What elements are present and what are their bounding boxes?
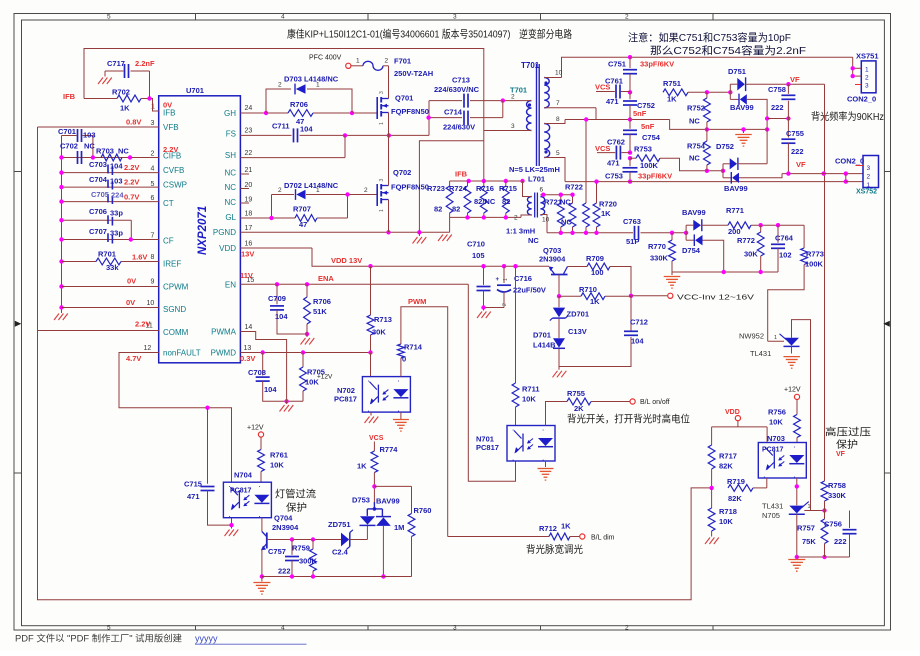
svg-text:300K: 300K bbox=[299, 557, 318, 566]
svg-text:330K: 330K bbox=[828, 491, 847, 500]
svg-text:C755: C755 bbox=[786, 129, 804, 138]
svg-text:D702 L4148/NC: D702 L4148/NC bbox=[284, 181, 339, 190]
svg-text:NC: NC bbox=[224, 183, 236, 192]
svg-text:NC: NC bbox=[689, 154, 700, 163]
svg-text:R718: R718 bbox=[719, 507, 737, 516]
svg-text:+12V: +12V bbox=[317, 374, 333, 381]
svg-text:C711: C711 bbox=[272, 122, 290, 131]
svg-text:VDD: VDD bbox=[219, 244, 236, 253]
svg-text:C707: C707 bbox=[89, 227, 107, 236]
svg-text:ENA: ENA bbox=[318, 274, 334, 283]
svg-text:C712: C712 bbox=[630, 318, 648, 327]
svg-text:NW952: NW952 bbox=[739, 332, 764, 341]
svg-text:23: 23 bbox=[245, 128, 253, 135]
svg-text:8: 8 bbox=[151, 254, 155, 261]
svg-text:30K: 30K bbox=[372, 328, 386, 337]
svg-text:R713: R713 bbox=[374, 315, 392, 324]
svg-text:2: 2 bbox=[502, 303, 508, 306]
svg-text:IFB: IFB bbox=[455, 170, 468, 179]
svg-text:D751: D751 bbox=[728, 67, 746, 76]
svg-text:224/630V/NC: 224/630V/NC bbox=[434, 85, 480, 94]
svg-text:471: 471 bbox=[187, 492, 200, 501]
svg-text:0.3V: 0.3V bbox=[240, 354, 255, 363]
svg-text:82: 82 bbox=[434, 205, 442, 214]
svg-text:R707: R707 bbox=[293, 205, 311, 214]
svg-text:10: 10 bbox=[555, 70, 563, 77]
svg-text:R770: R770 bbox=[648, 242, 666, 251]
svg-text:TL431: TL431 bbox=[750, 349, 771, 358]
svg-text:6: 6 bbox=[540, 187, 544, 194]
svg-text:103: 103 bbox=[110, 177, 123, 186]
svg-text:0.7V: 0.7V bbox=[124, 193, 139, 202]
svg-text:CON2_0: CON2_0 bbox=[835, 157, 864, 166]
svg-text:那么C752和C754容量为2.2nF: 那么C752和C754容量为2.2nF bbox=[650, 44, 806, 57]
svg-text:82/NC: 82/NC bbox=[474, 197, 496, 206]
svg-text:Q704: Q704 bbox=[274, 514, 293, 523]
svg-text:75K: 75K bbox=[802, 537, 816, 546]
svg-text:TL431: TL431 bbox=[762, 502, 783, 511]
svg-text:1: 1 bbox=[808, 504, 811, 510]
svg-text:2N3904: 2N3904 bbox=[272, 523, 299, 532]
svg-text:2: 2 bbox=[278, 187, 282, 194]
svg-text:2: 2 bbox=[364, 187, 368, 194]
svg-text:C717: C717 bbox=[107, 59, 125, 68]
svg-text:0V: 0V bbox=[126, 298, 135, 307]
svg-text:VDD: VDD bbox=[725, 409, 740, 416]
svg-text:3: 3 bbox=[151, 120, 155, 127]
svg-text:C704: C704 bbox=[89, 175, 108, 184]
svg-text:R760: R760 bbox=[414, 506, 432, 515]
svg-text:R773: R773 bbox=[806, 250, 824, 259]
svg-text:N705: N705 bbox=[762, 511, 780, 520]
svg-text:VF: VF bbox=[836, 451, 846, 458]
svg-text:2: 2 bbox=[625, 624, 629, 631]
svg-text:NC: NC bbox=[560, 198, 571, 207]
svg-text:注意：如果C751和C753容量为10pF: 注意：如果C751和C753容量为10pF bbox=[628, 31, 791, 44]
svg-text:471: 471 bbox=[607, 159, 620, 168]
svg-text:33pF/6KV: 33pF/6KV bbox=[638, 172, 672, 181]
svg-text:5: 5 bbox=[107, 14, 111, 21]
svg-text:1K: 1K bbox=[601, 209, 611, 218]
svg-text:R717: R717 bbox=[719, 452, 737, 461]
svg-text:4: 4 bbox=[281, 14, 285, 21]
svg-text:灯管过流: 灯管过流 bbox=[275, 488, 316, 501]
svg-text:10: 10 bbox=[147, 300, 155, 307]
svg-text:1: 1 bbox=[503, 278, 509, 281]
svg-text:C703: C703 bbox=[89, 160, 107, 169]
svg-text:R754: R754 bbox=[687, 142, 706, 151]
svg-text:10K: 10K bbox=[522, 395, 536, 404]
svg-text:Q701: Q701 bbox=[395, 94, 413, 103]
svg-text:CVFB: CVFB bbox=[163, 166, 184, 175]
svg-text:2.2V: 2.2V bbox=[124, 163, 139, 172]
svg-text:R752: R752 bbox=[687, 104, 705, 113]
svg-text:100: 100 bbox=[591, 268, 604, 277]
svg-text:8: 8 bbox=[556, 116, 560, 123]
svg-text:C709: C709 bbox=[268, 294, 286, 303]
svg-text:IREF: IREF bbox=[163, 260, 181, 269]
svg-text:C705: C705 bbox=[91, 190, 109, 199]
svg-text:104: 104 bbox=[264, 385, 277, 394]
svg-text:2N3904: 2N3904 bbox=[539, 255, 566, 264]
svg-text:R755: R755 bbox=[567, 389, 585, 398]
svg-text:C713: C713 bbox=[452, 76, 470, 85]
svg-text:1: 1 bbox=[865, 67, 869, 74]
svg-text:D701: D701 bbox=[533, 331, 551, 340]
svg-text:104: 104 bbox=[300, 125, 313, 134]
svg-text:C706: C706 bbox=[89, 207, 107, 216]
svg-text:R716: R716 bbox=[476, 184, 494, 193]
svg-text:4: 4 bbox=[281, 624, 285, 631]
svg-text:47: 47 bbox=[299, 220, 307, 229]
svg-text:2.2V: 2.2V bbox=[135, 320, 150, 329]
svg-text:C701: C701 bbox=[58, 127, 76, 136]
svg-text:R709: R709 bbox=[586, 254, 604, 263]
svg-text:L414B: L414B bbox=[533, 341, 556, 350]
svg-text:5: 5 bbox=[107, 624, 111, 631]
svg-text:2: 2 bbox=[385, 58, 389, 65]
svg-text:471: 471 bbox=[606, 97, 619, 106]
svg-text:1: 1 bbox=[379, 122, 385, 125]
svg-text:0: 0 bbox=[402, 355, 406, 364]
svg-text:R702: R702 bbox=[112, 88, 130, 97]
svg-text:D703 L4148/NC: D703 L4148/NC bbox=[284, 75, 339, 84]
svg-text:33p: 33p bbox=[110, 229, 123, 238]
svg-text:1K: 1K bbox=[357, 462, 367, 471]
svg-text:R724: R724 bbox=[449, 184, 468, 193]
svg-text:D753: D753 bbox=[352, 496, 370, 505]
svg-text:1: 1 bbox=[774, 335, 777, 341]
svg-text:12: 12 bbox=[144, 345, 152, 352]
svg-text:PDF 文件以 "PDF 制作工厂" 试用版创建: PDF 文件以 "PDF 制作工厂" 试用版创建 bbox=[15, 633, 182, 644]
svg-text:17: 17 bbox=[245, 225, 253, 232]
svg-text:1: 1 bbox=[316, 82, 320, 89]
svg-text:N704: N704 bbox=[234, 471, 253, 480]
svg-text:R759: R759 bbox=[292, 544, 310, 553]
svg-text:3: 3 bbox=[453, 14, 457, 21]
svg-text:16: 16 bbox=[245, 240, 253, 247]
svg-text:2: 2 bbox=[625, 14, 629, 21]
svg-text:2: 2 bbox=[151, 151, 155, 158]
svg-text:R753: R753 bbox=[634, 145, 652, 154]
svg-text:33k: 33k bbox=[106, 263, 119, 272]
svg-text:13V: 13V bbox=[241, 250, 254, 259]
svg-text:R772: R772 bbox=[737, 236, 755, 245]
svg-text:0V: 0V bbox=[127, 277, 136, 286]
svg-text:PFC 400V: PFC 400V bbox=[309, 55, 342, 62]
svg-text:EN: EN bbox=[225, 281, 236, 290]
svg-text:PGND: PGND bbox=[213, 228, 236, 237]
svg-text:D752: D752 bbox=[716, 142, 734, 151]
svg-text:3: 3 bbox=[867, 165, 871, 172]
svg-text:F701: F701 bbox=[394, 57, 411, 66]
svg-text:1M: 1M bbox=[394, 523, 404, 532]
svg-text:VCC-Inv 12~16V: VCC-Inv 12~16V bbox=[677, 293, 754, 302]
svg-text:VFB: VFB bbox=[163, 123, 179, 132]
svg-text:Q702: Q702 bbox=[393, 168, 411, 177]
svg-text:R771: R771 bbox=[726, 206, 744, 215]
svg-text:R719: R719 bbox=[727, 477, 745, 486]
svg-text:NC: NC bbox=[689, 117, 700, 126]
svg-text:C754: C754 bbox=[642, 133, 661, 142]
svg-text:BAV99: BAV99 bbox=[730, 103, 754, 112]
svg-text:10K: 10K bbox=[769, 418, 783, 427]
svg-text:1: 1 bbox=[356, 58, 360, 65]
svg-text:2: 2 bbox=[865, 75, 869, 82]
svg-text:33p: 33p bbox=[110, 209, 123, 218]
svg-text:250V-T2AH: 250V-T2AH bbox=[394, 69, 433, 78]
svg-text:5nF: 5nF bbox=[641, 122, 655, 131]
svg-text:2: 2 bbox=[278, 82, 282, 89]
svg-text:3: 3 bbox=[511, 123, 515, 130]
svg-text:PWMA: PWMA bbox=[211, 328, 237, 337]
svg-text:1.6V: 1.6V bbox=[132, 253, 147, 262]
svg-text:104: 104 bbox=[631, 337, 644, 346]
svg-text:224: 224 bbox=[111, 191, 124, 200]
svg-text:PC817: PC817 bbox=[762, 447, 784, 454]
svg-text:NC: NC bbox=[224, 168, 236, 177]
svg-text:CSWP: CSWP bbox=[163, 181, 187, 190]
svg-text:D754: D754 bbox=[682, 246, 701, 255]
svg-text:51P: 51P bbox=[626, 237, 639, 246]
svg-text:3: 3 bbox=[379, 179, 385, 182]
svg-text:7: 7 bbox=[556, 100, 560, 107]
svg-text:105: 105 bbox=[472, 251, 485, 260]
svg-text:100K: 100K bbox=[640, 161, 659, 170]
svg-text:13: 13 bbox=[244, 345, 252, 352]
svg-text:222: 222 bbox=[834, 537, 847, 546]
svg-text:R706: R706 bbox=[290, 100, 308, 109]
svg-text:3: 3 bbox=[453, 624, 457, 631]
svg-text:R774: R774 bbox=[380, 445, 399, 454]
svg-text:4.7V: 4.7V bbox=[126, 354, 141, 363]
svg-text:30K: 30K bbox=[744, 250, 758, 259]
svg-text:10K: 10K bbox=[719, 517, 733, 526]
svg-text:2: 2 bbox=[514, 215, 518, 222]
svg-text:PWMD: PWMD bbox=[211, 349, 237, 358]
svg-text:2.2nF: 2.2nF bbox=[135, 59, 155, 68]
svg-text:SH: SH bbox=[225, 151, 236, 160]
svg-text:U701: U701 bbox=[186, 86, 204, 95]
svg-text:VF: VF bbox=[796, 160, 806, 169]
svg-text:82K: 82K bbox=[728, 494, 742, 503]
svg-text:22: 22 bbox=[245, 150, 253, 157]
svg-text:R751: R751 bbox=[663, 79, 681, 88]
svg-text:VDD 13V: VDD 13V bbox=[331, 256, 362, 265]
svg-text:222: 222 bbox=[278, 567, 291, 576]
svg-text:保护: 保护 bbox=[286, 501, 307, 514]
svg-text:100K: 100K bbox=[805, 260, 824, 269]
svg-text:0V: 0V bbox=[163, 101, 172, 110]
svg-text:19: 19 bbox=[245, 197, 253, 204]
svg-text:C764: C764 bbox=[775, 234, 794, 243]
svg-text:10: 10 bbox=[542, 217, 550, 224]
svg-text:NXP2071: NXP2071 bbox=[197, 206, 209, 255]
svg-text:PC817: PC817 bbox=[334, 395, 357, 404]
svg-text:R722: R722 bbox=[565, 183, 583, 192]
svg-text:B/L dim: B/L dim bbox=[591, 535, 615, 542]
svg-text:R703: R703 bbox=[96, 147, 114, 156]
svg-text:330K: 330K bbox=[650, 254, 669, 263]
svg-text:C716: C716 bbox=[514, 274, 532, 283]
svg-text:R723: R723 bbox=[427, 184, 445, 193]
svg-text:C715: C715 bbox=[184, 480, 202, 489]
svg-text:R720: R720 bbox=[599, 200, 617, 209]
svg-text:1K: 1K bbox=[667, 95, 677, 104]
svg-text:5nF: 5nF bbox=[633, 109, 647, 118]
svg-text:高压过压: 高压过压 bbox=[825, 426, 871, 439]
svg-text:R711: R711 bbox=[522, 385, 540, 394]
svg-text:背光脉宽调光: 背光脉宽调光 bbox=[526, 543, 583, 556]
svg-text:102: 102 bbox=[779, 251, 792, 260]
svg-text:yyyyy: yyyyy bbox=[195, 634, 218, 644]
svg-text:COMM: COMM bbox=[163, 328, 189, 337]
svg-text:82: 82 bbox=[452, 205, 460, 214]
svg-text:CPWM: CPWM bbox=[163, 283, 189, 292]
svg-text:33pF/6KV: 33pF/6KV bbox=[640, 60, 674, 69]
svg-text:IFB: IFB bbox=[163, 109, 175, 118]
svg-text:224/630V: 224/630V bbox=[443, 123, 475, 132]
svg-text:0.8V: 0.8V bbox=[126, 118, 141, 127]
svg-text:CON2_0: CON2_0 bbox=[847, 95, 876, 104]
svg-text:PWM: PWM bbox=[408, 297, 426, 306]
svg-text:C757: C757 bbox=[268, 547, 286, 556]
svg-text:104: 104 bbox=[275, 312, 288, 321]
svg-text:1K: 1K bbox=[590, 297, 600, 306]
svg-text:24: 24 bbox=[245, 105, 253, 112]
svg-text:C702: C702 bbox=[60, 142, 78, 151]
svg-text:2: 2 bbox=[511, 94, 515, 101]
svg-text:FS: FS bbox=[226, 130, 236, 139]
svg-text:VF: VF bbox=[790, 75, 800, 84]
svg-text:PC817: PC817 bbox=[230, 488, 252, 495]
svg-text:B/L on/off: B/L on/off bbox=[640, 399, 670, 406]
svg-text:康佳KIP+L150I12C1-01(编号34006601: 康佳KIP+L150I12C1-01(编号34006601 版本号3501409… bbox=[287, 28, 572, 41]
svg-text:+: + bbox=[496, 277, 500, 283]
svg-text:103: 103 bbox=[83, 131, 96, 140]
svg-text:BAV99: BAV99 bbox=[724, 184, 748, 193]
svg-text:CF: CF bbox=[163, 237, 174, 246]
svg-text:82: 82 bbox=[502, 197, 510, 206]
svg-text:10K: 10K bbox=[270, 461, 284, 470]
svg-text:R710: R710 bbox=[579, 285, 597, 294]
svg-text:9: 9 bbox=[151, 279, 155, 286]
svg-text:C751: C751 bbox=[608, 60, 626, 69]
svg-text:R758: R758 bbox=[828, 481, 846, 490]
svg-text:1:1 3mH: 1:1 3mH bbox=[506, 227, 535, 236]
svg-text:R761: R761 bbox=[270, 451, 288, 460]
svg-text:18: 18 bbox=[245, 211, 253, 218]
svg-text:N=5 LK=25mH: N=5 LK=25mH bbox=[509, 165, 560, 174]
svg-text:222: 222 bbox=[791, 147, 804, 156]
svg-text:NC: NC bbox=[224, 198, 236, 207]
svg-text:FQPF8N50: FQPF8N50 bbox=[391, 107, 429, 116]
svg-text:1: 1 bbox=[316, 187, 320, 194]
svg-text:背光开关，打开背光时高电位: 背光开关，打开背光时高电位 bbox=[567, 413, 690, 426]
svg-text:PC817: PC817 bbox=[476, 443, 499, 452]
svg-text:XS751: XS751 bbox=[856, 52, 879, 61]
svg-text:82K: 82K bbox=[719, 462, 733, 471]
svg-text:20: 20 bbox=[245, 182, 253, 189]
svg-text:C710: C710 bbox=[467, 240, 485, 249]
svg-text:222: 222 bbox=[771, 103, 784, 112]
svg-text:C13V: C13V bbox=[568, 327, 587, 336]
svg-text:C708: C708 bbox=[248, 368, 266, 377]
svg-text:R757: R757 bbox=[797, 524, 815, 533]
svg-text:C714: C714 bbox=[444, 108, 463, 117]
svg-text:FQPF8N50: FQPF8N50 bbox=[391, 183, 429, 192]
svg-text:51K: 51K bbox=[313, 307, 327, 316]
svg-text:2: 2 bbox=[867, 174, 871, 181]
svg-text:保护: 保护 bbox=[836, 438, 858, 451]
svg-text:R706: R706 bbox=[313, 297, 331, 306]
svg-text:背光频率为90KHz: 背光频率为90KHz bbox=[811, 110, 884, 123]
svg-text:C763: C763 bbox=[623, 217, 641, 226]
svg-text:2.2V: 2.2V bbox=[163, 145, 178, 154]
svg-text:SGND: SGND bbox=[163, 305, 186, 314]
svg-text:14: 14 bbox=[245, 324, 253, 331]
svg-text:200: 200 bbox=[728, 227, 741, 236]
svg-text:C758: C758 bbox=[768, 85, 786, 94]
svg-text:C762: C762 bbox=[607, 138, 625, 147]
svg-text:ZD751: ZD751 bbox=[328, 520, 351, 529]
svg-text:R756: R756 bbox=[768, 408, 786, 417]
svg-text:22uF/50V: 22uF/50V bbox=[513, 286, 546, 295]
svg-text:21: 21 bbox=[245, 167, 253, 174]
svg-text:+12V: +12V bbox=[247, 425, 264, 432]
svg-text:11V: 11V bbox=[240, 271, 253, 280]
svg-text:C753: C753 bbox=[605, 172, 623, 181]
svg-text:104: 104 bbox=[110, 162, 123, 171]
svg-text:R715: R715 bbox=[499, 184, 517, 193]
svg-text:6: 6 bbox=[151, 195, 155, 202]
svg-text:NC: NC bbox=[84, 142, 95, 151]
svg-text:GH: GH bbox=[224, 109, 236, 118]
svg-text:3: 3 bbox=[865, 83, 869, 90]
svg-text:XS752: XS752 bbox=[856, 189, 877, 196]
svg-text:1K: 1K bbox=[120, 104, 130, 113]
svg-text:3: 3 bbox=[379, 91, 385, 94]
svg-text:4: 4 bbox=[151, 166, 155, 173]
svg-text:7: 7 bbox=[151, 233, 155, 240]
svg-text:L701: L701 bbox=[528, 175, 545, 184]
svg-text:VCS: VCS bbox=[369, 435, 384, 442]
svg-text:T701: T701 bbox=[521, 61, 540, 70]
svg-text:C756: C756 bbox=[824, 520, 842, 529]
svg-text:nonFAULT: nonFAULT bbox=[163, 349, 201, 358]
svg-text:R701: R701 bbox=[98, 250, 116, 259]
svg-text:CT: CT bbox=[163, 199, 174, 208]
svg-text:NC: NC bbox=[561, 218, 572, 227]
svg-text:ZD701: ZD701 bbox=[567, 310, 590, 319]
svg-text:2.2V: 2.2V bbox=[124, 178, 139, 187]
svg-text:NC: NC bbox=[118, 147, 129, 156]
svg-text:C2.4: C2.4 bbox=[332, 548, 349, 557]
svg-text:R714: R714 bbox=[404, 343, 423, 352]
svg-text:GL: GL bbox=[225, 213, 236, 222]
svg-text:+12V: +12V bbox=[784, 387, 801, 394]
svg-text:5: 5 bbox=[556, 150, 560, 157]
svg-text:2K: 2K bbox=[574, 404, 584, 413]
svg-text:C761: C761 bbox=[605, 77, 623, 86]
svg-text:R712: R712 bbox=[539, 524, 557, 533]
svg-text:1: 1 bbox=[379, 209, 385, 212]
svg-text:BAV99: BAV99 bbox=[682, 208, 706, 217]
svg-text:NC: NC bbox=[528, 236, 539, 245]
svg-text:IFB: IFB bbox=[63, 92, 76, 101]
svg-text:N703: N703 bbox=[767, 434, 785, 443]
svg-text:BAV99: BAV99 bbox=[376, 497, 400, 506]
